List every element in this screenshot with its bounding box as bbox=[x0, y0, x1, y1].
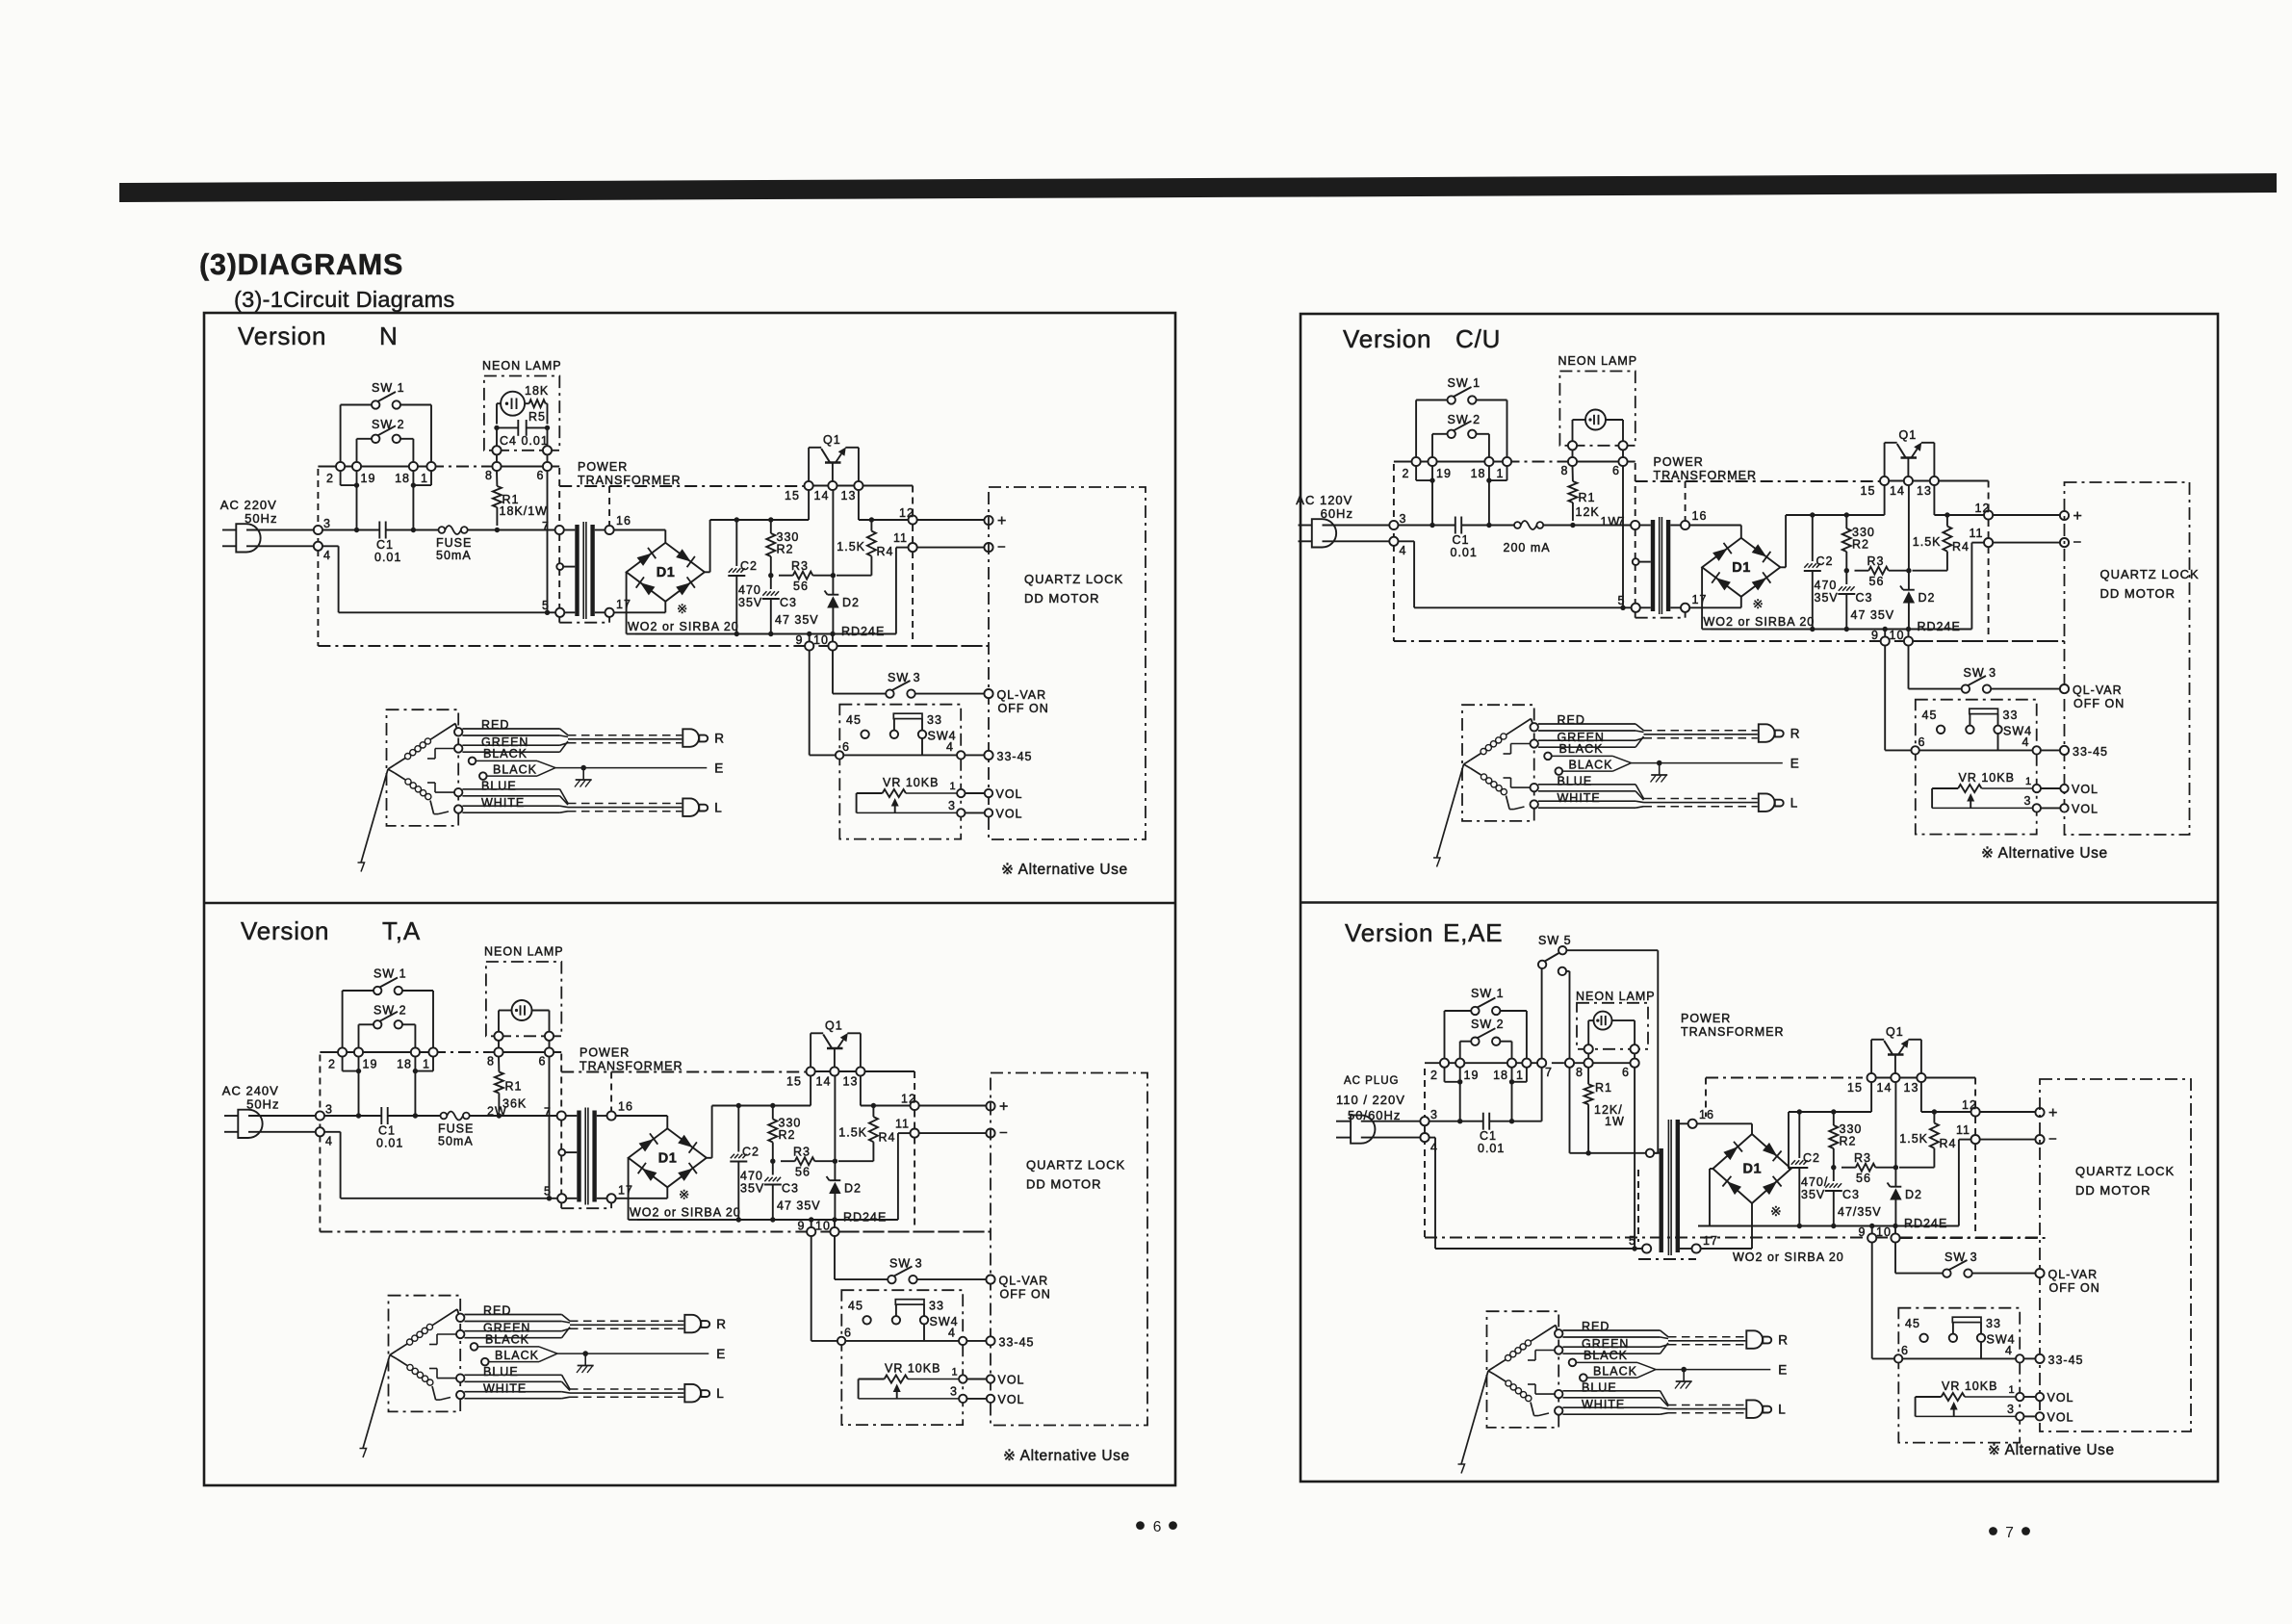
svg-text:SW 1: SW 1 bbox=[372, 381, 405, 395]
zener diode D2 RD24E (Version C/U) bbox=[1900, 485, 1961, 633]
svg-text:1: 1 bbox=[421, 472, 428, 485]
chassis boundary dash-dot (left + bottom) (Version C/U) bbox=[1394, 464, 2065, 641]
lead GREEN (Version C/U) bbox=[1504, 731, 1644, 754]
svg-text:VR 10KB: VR 10KB bbox=[1942, 1379, 1997, 1393]
svg-text:C4 0.01: C4 0.01 bbox=[500, 434, 549, 448]
wire pin11 boundary dashed (Version N) bbox=[912, 552, 914, 641]
positive rail wire (Version T,A) bbox=[712, 1103, 915, 1108]
positive rail wire (Version E,AE) bbox=[1789, 1109, 1975, 1114]
QUARTZ LOCK DD MOTOR label (Version N) bbox=[1024, 572, 1123, 606]
wire AC row 4 (Version N) bbox=[322, 546, 550, 615]
AC mains label (Version N) bbox=[220, 498, 278, 526]
svg-text:18K/1W: 18K/1W bbox=[500, 504, 548, 518]
svg-text:DD MOTOR: DD MOTOR bbox=[1024, 591, 1100, 606]
jumper link pin2-pin19 (Version C/U) bbox=[1416, 466, 1435, 483]
svg-text:RED: RED bbox=[1582, 1320, 1610, 1333]
motor terminal 33-45 (Version C/U) bbox=[2041, 749, 2060, 751]
potentiometer VR 10KB (Version E,AE) bbox=[1916, 1379, 2024, 1421]
RCA plug L (Version N) bbox=[682, 798, 723, 816]
RCA plug R (Version T,A) bbox=[684, 1315, 727, 1333]
svg-text:12K: 12K bbox=[1576, 505, 1600, 519]
lead WHITE (Version C/U) bbox=[1509, 791, 1643, 810]
svg-text:R1: R1 bbox=[1579, 491, 1596, 504]
wire pin18 to AC row (Version C/U) bbox=[1486, 466, 1491, 528]
motor terminal QL-VAR (Version T,A) bbox=[917, 1278, 987, 1280]
pin 19 (Version N) bbox=[352, 462, 376, 485]
svg-text:VOL: VOL bbox=[998, 1374, 1025, 1387]
header rule bar bbox=[119, 173, 2277, 202]
svg-text:1.5K: 1.5K bbox=[837, 540, 865, 554]
pin 13 (Version C/U) bbox=[1917, 477, 1939, 515]
svg-text:47/35V: 47/35V bbox=[1838, 1205, 1882, 1219]
jumper link pin2-pin19 (Version E,AE) bbox=[1445, 1068, 1463, 1085]
potentiometer VR 10KB (Version N) bbox=[857, 776, 966, 817]
chassis dash-dot right of pin 10 (Version E,AE) bbox=[1900, 1237, 2047, 1239]
svg-text:BLUE: BLUE bbox=[1558, 775, 1593, 788]
svg-text:17: 17 bbox=[1703, 1234, 1718, 1248]
svg-text:17: 17 bbox=[616, 598, 631, 611]
svg-text:BLACK: BLACK bbox=[1593, 1365, 1637, 1379]
svg-text:SW 1: SW 1 bbox=[1471, 987, 1505, 1000]
AC mains label (Version T,A) bbox=[222, 1084, 280, 1112]
pin 19 (Version T,A) bbox=[354, 1047, 378, 1070]
switch SW1 (Version E,AE) bbox=[1445, 987, 1527, 1059]
power transformer T1 (Version E,AE) bbox=[1629, 1078, 1863, 1260]
svg-text:BLUE: BLUE bbox=[481, 780, 517, 793]
pin 8 (Version C/U) bbox=[1561, 457, 1578, 477]
svg-text:SW 2: SW 2 bbox=[1471, 1018, 1505, 1031]
svg-text:※ Alternative Use: ※ Alternative Use bbox=[1003, 1448, 1130, 1464]
svg-text:35V: 35V bbox=[740, 1182, 764, 1196]
pin 9 (Version T,A) bbox=[798, 1220, 816, 1237]
signal cable R (Version T,A) bbox=[570, 1321, 683, 1328]
chassis dash-dot right of pin 10 (Version C/U) bbox=[1913, 640, 2060, 642]
pin 18 (Version T,A) bbox=[397, 1047, 420, 1070]
ground symbol (Version E,AE) bbox=[1675, 1370, 1692, 1389]
svg-text:TRANSFORMER: TRANSFORMER bbox=[578, 474, 682, 487]
svg-text:BLACK: BLACK bbox=[493, 763, 537, 777]
neon lamp (Version C/U) bbox=[1573, 410, 1624, 442]
svg-text:9: 9 bbox=[798, 1220, 806, 1233]
svg-text:−: − bbox=[999, 1125, 1008, 1142]
pin 6 (Version T,A) bbox=[539, 1047, 554, 1068]
terminal 4 (Version T,A) bbox=[248, 1127, 333, 1147]
pin 12 (Version T,A) bbox=[901, 1093, 919, 1129]
earth lead E (Version N) bbox=[555, 761, 724, 776]
pin 13 (Version T,A) bbox=[843, 1067, 865, 1105]
svg-text:VOL: VOL bbox=[998, 1393, 1025, 1406]
svg-text:18: 18 bbox=[1493, 1069, 1508, 1082]
svg-text:3: 3 bbox=[325, 1103, 333, 1117]
jumper link pin1-pin18 (Version N) bbox=[411, 471, 431, 488]
svg-text:19: 19 bbox=[361, 472, 376, 485]
pin 18 (Version E,AE) bbox=[1493, 1059, 1516, 1082]
svg-text:R3: R3 bbox=[1854, 1151, 1871, 1165]
resistor R3 56 (Version T,A) bbox=[781, 1146, 837, 1179]
speed selector enclosure (Version E,AE) bbox=[1898, 1308, 2020, 1443]
svg-text:DD MOTOR: DD MOTOR bbox=[2100, 586, 2176, 601]
svg-text:Q1: Q1 bbox=[1886, 1025, 1904, 1039]
capacitor C3 47/35V (Version T,A) bbox=[764, 1161, 821, 1220]
stylus arm (Version T,A) bbox=[360, 1351, 398, 1457]
svg-text:VOL: VOL bbox=[996, 808, 1023, 821]
svg-text:※: ※ bbox=[679, 1188, 690, 1202]
pin 15 (Version N) bbox=[785, 481, 813, 520]
wire pin6 down (Version E,AE) bbox=[1634, 1068, 1635, 1249]
svg-text:※: ※ bbox=[1770, 1203, 1783, 1219]
svg-text:T,A: T,A bbox=[382, 916, 421, 945]
motor terminal + (Version T,A) bbox=[919, 1099, 1009, 1116]
svg-text:R2: R2 bbox=[1840, 1135, 1857, 1148]
svg-text:BLUE: BLUE bbox=[483, 1365, 519, 1379]
svg-text:33: 33 bbox=[1986, 1317, 2001, 1330]
pin 7 (Version E,AE) bbox=[1545, 1059, 1574, 1079]
pin 2 (Version E,AE) bbox=[1430, 1059, 1449, 1082]
pin 14 (Version N) bbox=[814, 481, 837, 503]
cartridge shell enclosure (Version E,AE) bbox=[1487, 1311, 1559, 1428]
terminal strip row wire (Version N) bbox=[318, 466, 559, 468]
earth lead E (Version T,A) bbox=[557, 1347, 726, 1361]
lead BLACK lower (Version C/U) bbox=[1556, 759, 1632, 775]
svg-text:18: 18 bbox=[1471, 467, 1486, 480]
switch SW2 (Version C/U) bbox=[1432, 413, 1489, 457]
terminal strip row wire (Version T,A) bbox=[320, 1051, 561, 1053]
lead RED (Version T,A) bbox=[456, 1304, 570, 1324]
svg-text:Version: Version bbox=[241, 916, 329, 945]
svg-text:OFF ON: OFF ON bbox=[2073, 697, 2125, 710]
pin 14 (Version T,A) bbox=[816, 1067, 839, 1088]
pin 2 (Version N) bbox=[326, 462, 345, 485]
wire pin10 to SW3 (Version E,AE) bbox=[1894, 1243, 1896, 1274]
motor terminal VOL 1 (Version N) bbox=[966, 792, 985, 794]
motor terminal - (Version E,AE) bbox=[1980, 1131, 2057, 1147]
svg-text:R: R bbox=[716, 1317, 727, 1331]
lead GREEN (Version T,A) bbox=[429, 1322, 570, 1345]
svg-text:RD24E: RD24E bbox=[1918, 620, 1961, 633]
switch SW4 (Version E,AE) bbox=[1905, 1317, 2016, 1358]
resistor R1 (Version C/U) bbox=[1568, 466, 1620, 528]
motor terminal QL-VAR (Version C/U) bbox=[1991, 688, 2060, 690]
svg-text:4: 4 bbox=[1430, 1141, 1438, 1154]
svg-text:16: 16 bbox=[1692, 509, 1708, 523]
svg-text:−: − bbox=[2048, 1131, 2057, 1147]
motor terminal QL-VAR (Version N) bbox=[915, 693, 985, 695]
svg-text:35V: 35V bbox=[738, 596, 762, 609]
signal cable L (Version E,AE) bbox=[1668, 1405, 1745, 1413]
svg-text:E: E bbox=[1778, 1363, 1788, 1378]
svg-text:(3)-1Circuit Diagrams: (3)-1Circuit Diagrams bbox=[234, 287, 455, 312]
chassis terminal 7a (Version E,AE) bbox=[1537, 1059, 1546, 1068]
lead BLACK upper (Version C/U) bbox=[1544, 742, 1631, 763]
svg-text:2: 2 bbox=[1403, 467, 1410, 480]
svg-text:※ Alternative Use: ※ Alternative Use bbox=[1001, 862, 1128, 878]
pin 1 (Version C/U) bbox=[1497, 457, 1512, 480]
svg-text:6: 6 bbox=[1153, 1519, 1162, 1535]
jumper link pin2-pin19 (Version N) bbox=[341, 471, 360, 488]
motor enclosure dash-dot box (Version C/U) bbox=[2065, 482, 2190, 835]
svg-text:L: L bbox=[716, 1386, 725, 1401]
SW4 terminal 4 (Version T,A) bbox=[845, 1327, 966, 1346]
motor enclosure dash-dot box (Version E,AE) bbox=[2040, 1079, 2191, 1431]
lead WHITE (Version E,AE) bbox=[1534, 1398, 1668, 1416]
switch SW4 (Version T,A) bbox=[848, 1300, 959, 1341]
svg-text:11: 11 bbox=[895, 1118, 910, 1131]
svg-text:QL-VAR: QL-VAR bbox=[2048, 1268, 2099, 1281]
svg-text:12: 12 bbox=[899, 506, 914, 520]
zener diode D2 RD24E (Version N) bbox=[825, 490, 886, 638]
svg-text:45: 45 bbox=[848, 1300, 863, 1313]
SW4 terminal 6 (Version T,A) bbox=[837, 1327, 852, 1346]
svg-text:7: 7 bbox=[542, 520, 550, 533]
fuse FUSE 50mA (Version T,A) bbox=[438, 1112, 474, 1148]
svg-text:C1: C1 bbox=[1453, 533, 1470, 547]
transistor Q1 (Version C/U) bbox=[1885, 428, 1935, 477]
AC plug (Version E,AE) bbox=[1336, 1115, 1375, 1143]
capacitor C2 470/35V (Version N) bbox=[728, 520, 762, 634]
lead BLACK lower (Version N) bbox=[479, 763, 555, 780]
pin 12 (Version C/U) bbox=[1975, 502, 1994, 538]
wire pin 9 to SW4 (Version C/U) bbox=[1884, 646, 1886, 751]
svg-text:QUARTZ LOCK: QUARTZ LOCK bbox=[2075, 1164, 2175, 1178]
svg-text:D2: D2 bbox=[844, 1182, 862, 1196]
svg-text:17: 17 bbox=[618, 1184, 633, 1198]
signal cable R (Version C/U) bbox=[1644, 731, 1758, 738]
neon lamp enclosure (Version N) bbox=[482, 359, 562, 451]
svg-text:47 35V: 47 35V bbox=[1851, 608, 1895, 622]
svg-text:QL-VAR: QL-VAR bbox=[2073, 683, 2123, 697]
pin 12 (Version E,AE) bbox=[1962, 1098, 1980, 1135]
wire AC row 3 (Version T,A) bbox=[324, 1113, 561, 1118]
svg-text:50mA: 50mA bbox=[436, 549, 472, 562]
svg-text:6: 6 bbox=[1901, 1344, 1909, 1357]
bridge rectifier D1 (Version C/U) bbox=[1689, 515, 1786, 630]
lead BLUE (Version C/U) bbox=[1504, 775, 1644, 801]
pin 15 (Version C/U) bbox=[1861, 477, 1890, 515]
svg-text:6: 6 bbox=[537, 469, 545, 482]
svg-text:SW 3: SW 3 bbox=[888, 671, 921, 684]
svg-text:R: R bbox=[714, 732, 725, 746]
cartridge coil lower (Version N) bbox=[395, 773, 434, 814]
secondary pin row wire (Version E,AE) bbox=[1876, 1078, 1975, 1113]
motor terminal QL-VAR (Version E,AE) bbox=[1972, 1273, 2036, 1275]
resistor R3 56 (Version N) bbox=[779, 559, 836, 593]
lead BLUE (Version T,A) bbox=[429, 1365, 570, 1391]
svg-text:Version: Version bbox=[1345, 918, 1433, 947]
wire pin18 to AC row (Version N) bbox=[411, 471, 416, 532]
motor terminal + (Version E,AE) bbox=[1980, 1105, 2058, 1121]
chassis boundary dash-dot (left + bottom) (Version E,AE) bbox=[1425, 1069, 2040, 1238]
AC plug (Version C/U) bbox=[1299, 519, 1337, 547]
svg-text:E,AE: E,AE bbox=[1443, 918, 1503, 947]
svg-text:13: 13 bbox=[841, 489, 857, 503]
motor terminal 33-45 (Version N) bbox=[966, 754, 985, 756]
power transformer label (Version C/U) bbox=[1654, 455, 1758, 482]
svg-text:D2: D2 bbox=[1919, 591, 1936, 605]
svg-text:VOL: VOL bbox=[2047, 1411, 2074, 1425]
svg-text:WHITE: WHITE bbox=[481, 796, 525, 810]
svg-text:OFF ON: OFF ON bbox=[2049, 1281, 2100, 1295]
svg-text:BLACK: BLACK bbox=[1559, 742, 1604, 756]
svg-text:−: − bbox=[997, 539, 1006, 555]
negative bottom rail wire (Version N) bbox=[635, 632, 896, 636]
svg-text:SW 1: SW 1 bbox=[1448, 376, 1481, 390]
svg-text:BLACK: BLACK bbox=[495, 1349, 539, 1362]
svg-text:6: 6 bbox=[1622, 1066, 1630, 1079]
pin 10 (Version E,AE) bbox=[1876, 1225, 1900, 1243]
svg-text:C3: C3 bbox=[780, 596, 797, 609]
svg-text:FUSE: FUSE bbox=[436, 536, 472, 550]
stylus arm (Version E,AE) bbox=[1458, 1367, 1496, 1474]
svg-text:1: 1 bbox=[2025, 776, 2032, 787]
svg-text:TRANSFORMER: TRANSFORMER bbox=[1681, 1025, 1785, 1039]
svg-text:3: 3 bbox=[1430, 1108, 1438, 1121]
power transformer label (Version T,A) bbox=[579, 1046, 683, 1073]
alternative-use mark for D1 (Version E,AE) bbox=[1770, 1203, 1783, 1219]
resistor R1 (Version T,A) bbox=[487, 1057, 527, 1119]
svg-text:NEON LAMP: NEON LAMP bbox=[484, 945, 564, 959]
power transformer T1 (Version C/U) bbox=[1618, 463, 1883, 618]
chassis dash-dot right of pin 10 (Version T,A) bbox=[839, 1231, 987, 1233]
jumper link pin1-pin18 (Version T,A) bbox=[413, 1057, 433, 1074]
pin 1 (Version N) bbox=[421, 462, 436, 485]
svg-text:56: 56 bbox=[1869, 575, 1885, 588]
svg-text:QUARTZ LOCK: QUARTZ LOCK bbox=[1024, 572, 1123, 586]
resistor R1 12K/1W (Version E,AE) bbox=[1584, 1068, 1625, 1156]
cartridge coil upper (Version C/U) bbox=[1471, 719, 1532, 760]
pin 11 (Version E,AE) bbox=[1956, 1123, 1980, 1144]
lead BLACK upper (Version N) bbox=[469, 747, 555, 768]
motor terminal + (Version C/U) bbox=[1993, 508, 2082, 525]
svg-text:17: 17 bbox=[1692, 593, 1708, 606]
neon lamp (Version E,AE) bbox=[1588, 1012, 1635, 1045]
svg-text:1: 1 bbox=[2009, 1384, 2016, 1396]
pin 6 (Version N) bbox=[537, 462, 553, 482]
svg-text:BLACK: BLACK bbox=[1584, 1349, 1628, 1362]
wire AC row 4 (Version C/U) bbox=[1399, 541, 1626, 610]
resistor R5 18K (Version N) bbox=[525, 384, 549, 425]
SW4 terminal 4 (Version C/U) bbox=[1919, 735, 2041, 755]
secondary pin row wire (Version C/U) bbox=[1889, 481, 1988, 516]
svg-text:QUARTZ LOCK: QUARTZ LOCK bbox=[1026, 1158, 1125, 1173]
cartridge coil upper (Version N) bbox=[395, 724, 455, 765]
lead BLACK lower (Version E,AE) bbox=[1580, 1365, 1656, 1381]
terminal 4 (Version N) bbox=[246, 542, 331, 562]
svg-text:6: 6 bbox=[1612, 464, 1620, 477]
svg-text:7: 7 bbox=[544, 1106, 552, 1120]
QUARTZ LOCK DD MOTOR label (Version C/U) bbox=[2100, 567, 2200, 601]
svg-text:※ Alternative Use: ※ Alternative Use bbox=[1988, 1442, 2115, 1458]
svg-text:L: L bbox=[1790, 796, 1799, 811]
resistor R2 330 (Version T,A) bbox=[768, 1106, 801, 1164]
svg-text:R3: R3 bbox=[793, 1146, 811, 1159]
wire row 4 (Version E,AE) bbox=[1429, 1138, 1642, 1251]
switch SW2 (Version T,A) bbox=[359, 1004, 416, 1048]
switch SW2 (Version N) bbox=[357, 418, 414, 462]
svg-text:VR 10KB: VR 10KB bbox=[885, 1362, 940, 1376]
power transformer T1 (Version T,A) bbox=[544, 1054, 809, 1209]
wire pin11 boundary dashed (Version T,A) bbox=[914, 1138, 915, 1227]
svg-text:3: 3 bbox=[1400, 512, 1407, 526]
svg-text:R5: R5 bbox=[528, 410, 546, 424]
motor terminal VOL 1 (Version C/U) bbox=[2041, 787, 2060, 789]
svg-text:NEON LAMP: NEON LAMP bbox=[1576, 990, 1656, 1003]
svg-text:14: 14 bbox=[1890, 484, 1905, 498]
svg-text:4: 4 bbox=[2022, 735, 2030, 749]
capacitor C4 0.01 (Version N) bbox=[494, 420, 550, 448]
svg-text:VR 10KB: VR 10KB bbox=[1959, 771, 2015, 785]
cartridge coil lower (Version C/U) bbox=[1471, 768, 1510, 810]
svg-text:10: 10 bbox=[815, 1220, 831, 1233]
switch SW4 (Version N) bbox=[846, 713, 957, 755]
svg-text:14: 14 bbox=[814, 489, 830, 503]
speed selector enclosure (Version C/U) bbox=[1916, 700, 2037, 835]
motor enclosure dash-dot box (Version T,A) bbox=[991, 1073, 1147, 1426]
svg-text:BLUE: BLUE bbox=[1582, 1381, 1617, 1395]
wire AC row 4 (Version T,A) bbox=[324, 1132, 552, 1201]
motor terminal + (Version N) bbox=[917, 513, 1007, 529]
capacitor C1 0.01 (Version E,AE) bbox=[1478, 1113, 1505, 1155]
wire pin11 down to rail (Version T,A) bbox=[898, 1133, 911, 1220]
lead BLACK upper (Version E,AE) bbox=[1569, 1349, 1656, 1370]
svg-text:C2: C2 bbox=[740, 559, 758, 573]
earth lead E (Version C/U) bbox=[1632, 757, 1800, 771]
pin 18 (Version C/U) bbox=[1471, 457, 1494, 480]
svg-text:FUSE: FUSE bbox=[438, 1122, 474, 1136]
fuse 200mA (Version C/U) bbox=[1504, 521, 1551, 554]
pin 14 (Version C/U) bbox=[1890, 477, 1913, 498]
svg-text:1: 1 bbox=[1497, 467, 1505, 480]
wire pin 9 to SW4 (Version E,AE) bbox=[1871, 1243, 1873, 1359]
svg-text:QL-VAR: QL-VAR bbox=[999, 1275, 1049, 1288]
svg-text:QL-VAR: QL-VAR bbox=[997, 688, 1047, 702]
svg-text:BLACK: BLACK bbox=[1569, 759, 1613, 772]
svg-text:RD24E: RD24E bbox=[1904, 1217, 1947, 1230]
secondary pin row wire (Version N) bbox=[813, 486, 913, 521]
neon lamp (Version N) bbox=[497, 392, 529, 425]
svg-text:33: 33 bbox=[2003, 709, 2019, 722]
pin 15 (Version E,AE) bbox=[1847, 1073, 1876, 1112]
switch SW1 (Version T,A) bbox=[343, 967, 433, 1048]
svg-text:C3: C3 bbox=[1856, 591, 1873, 605]
svg-text:NEON LAMP: NEON LAMP bbox=[482, 359, 562, 373]
svg-text:E: E bbox=[716, 1347, 726, 1361]
neon box terminals (Version N) bbox=[492, 427, 552, 462]
pin 19 (Version E,AE) bbox=[1455, 1059, 1479, 1082]
svg-text:56: 56 bbox=[793, 580, 809, 593]
svg-text:16: 16 bbox=[618, 1100, 633, 1114]
pin 19 (Version C/U) bbox=[1428, 457, 1452, 480]
svg-text:Q1: Q1 bbox=[823, 433, 841, 447]
svg-text:※: ※ bbox=[1753, 597, 1764, 611]
pin 18 (Version N) bbox=[395, 462, 418, 485]
svg-text:WO2 or SIRBA 20: WO2 or SIRBA 20 bbox=[628, 620, 739, 633]
RCA plug R (Version E,AE) bbox=[1746, 1330, 1789, 1349]
lead BLACK upper (Version T,A) bbox=[471, 1333, 557, 1354]
transistor Q1 (Version E,AE) bbox=[1871, 1025, 1921, 1073]
svg-text:SW 3: SW 3 bbox=[1944, 1250, 1978, 1264]
resistor R2 330 (Version C/U) bbox=[1842, 515, 1875, 573]
speed selector enclosure (Version T,A) bbox=[841, 1290, 963, 1425]
svg-text:33: 33 bbox=[927, 713, 942, 727]
svg-text:13: 13 bbox=[1904, 1081, 1919, 1095]
svg-text:SW 5: SW 5 bbox=[1538, 934, 1572, 947]
ground symbol (Version N) bbox=[575, 768, 592, 787]
svg-text:35V: 35V bbox=[1801, 1188, 1825, 1201]
svg-text:WHITE: WHITE bbox=[483, 1382, 527, 1396]
svg-text:45: 45 bbox=[1922, 709, 1938, 722]
pin 10 (Version T,A) bbox=[815, 1220, 839, 1237]
capacitor C3 47/35V (Version N) bbox=[762, 576, 819, 634]
